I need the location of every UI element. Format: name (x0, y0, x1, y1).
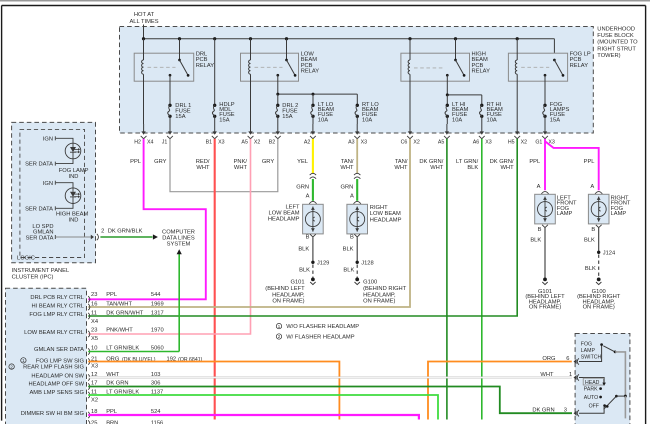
headlamp switch AUTO position (584, 395, 602, 401)
svg-text:A3: A3 (348, 139, 355, 145)
svg-text:FOG: FOG (581, 341, 592, 347)
bus junction at x=286.5 (285, 37, 288, 40)
ground G100 (behind right headlamp, on frame) (577, 278, 621, 311)
wire GRN to left low beam headlamp (296, 179, 313, 201)
headlamp LEFT LOW BEAM HEADLAMP (268, 204, 323, 234)
svg-text:X2: X2 (413, 139, 420, 145)
svg-text:RELAY: RELAY (570, 63, 589, 69)
svg-text:AMB LMP SENS SIG: AMB LMP SENS SIG (29, 390, 84, 396)
fuse DRL 2 FUSE 15A (276, 103, 299, 124)
wire label YEL (297, 159, 308, 165)
bus junction at x=250.5 (249, 37, 252, 40)
svg-text:BLK: BLK (298, 246, 309, 252)
svg-text:X2: X2 (254, 139, 261, 145)
IPC pin 2 connector (91, 234, 99, 240)
svg-text:SER DATA: SER DATA (25, 206, 53, 212)
wire BLK right low beam ground (343, 237, 358, 262)
svg-text:PPL: PPL (130, 159, 141, 165)
wire label DK GRN/ WHT (419, 159, 443, 171)
label: UNDERHOOD FUSE BLOCK (MOUNTED TO RIGHT STRUT TOWER) (597, 26, 638, 59)
svg-text:23: 23 (91, 292, 97, 298)
fog switch pin 1 connector (569, 372, 579, 381)
svg-text:HEAD: HEAD (585, 380, 600, 386)
svg-text:OFF: OFF (589, 404, 599, 410)
svg-text:WHT: WHT (394, 165, 408, 171)
svg-text:RELAY: RELAY (301, 69, 320, 75)
svg-text:FUSE BLOCK: FUSE BLOCK (597, 33, 634, 39)
fuse LT LO BEAM FUSE 10A (311, 102, 335, 124)
svg-text:1969: 1969 (151, 302, 164, 308)
svg-text:GRY: GRY (262, 159, 275, 165)
wire label GRY (154, 159, 167, 165)
pin C6/X2 of underhood fuse block (401, 124, 420, 145)
svg-text:W/ FLASHER HEADLAMP: W/ FLASHER HEADLAMP (286, 335, 355, 341)
svg-text:WHT: WHT (540, 372, 554, 378)
splice J128 (356, 261, 374, 267)
headlamp switch OFF position and arm (589, 395, 627, 419)
svg-text:LAMP: LAMP (581, 348, 596, 354)
wire BLK right fog to splice (584, 228, 599, 253)
svg-text:1: 1 (569, 372, 572, 378)
svg-text:23: 23 (91, 327, 97, 333)
pin A5 of underhood fuse block (438, 124, 450, 145)
svg-text:RIGHT STRUT: RIGHT STRUT (597, 46, 636, 52)
wire TAN/WHT (RT LO fuse to right low beam) (356, 139, 358, 174)
splice J129 (311, 261, 329, 267)
svg-text:GRY: GRY (154, 159, 167, 165)
pin J1 of underhood fuse block (162, 124, 173, 145)
svg-text:BLK: BLK (467, 165, 478, 171)
svg-text:ON FRAME): ON FRAME) (272, 299, 304, 305)
svg-text:BRN: BRN (106, 420, 118, 424)
svg-text:J128: J128 (361, 261, 373, 267)
svg-text:2: 2 (101, 229, 104, 235)
wire: high-beam feed branch (446, 93, 482, 105)
lamp socket connector B (right front fog) (591, 225, 601, 233)
wire link pin 3 to OFF contact (579, 407, 604, 413)
LED indicator HIGH BEAM IND (U2) (25, 181, 88, 224)
svg-text:DIMMER SW HI BM SIG: DIMMER SW HI BM SIG (21, 411, 85, 417)
svg-text:FOG LMP RLY CTRL: FOG LMP RLY CTRL (29, 312, 84, 318)
inline connector (YEL to GRN) (310, 173, 316, 178)
svg-text:RELAY: RELAY (196, 63, 215, 69)
svg-text:15A: 15A (219, 117, 229, 123)
svg-text:LT GRN/: LT GRN/ (456, 159, 479, 165)
svg-text:DK GRN/WHT: DK GRN/WHT (106, 310, 144, 316)
BCM pin 23 wire PNK/WHT 1970, label LOW BEAM RLY CTRL (24, 327, 164, 342)
svg-text:RELAY: RELAY (472, 69, 491, 75)
svg-text:5060: 5060 (151, 345, 164, 351)
lamp socket connector A (right low beam) (354, 201, 361, 203)
svg-text:IND: IND (69, 174, 79, 180)
svg-text:TAN/: TAN/ (395, 159, 408, 165)
lamp socket connector A (left front fog) (541, 192, 548, 194)
wire BLK left low beam ground (298, 237, 313, 262)
svg-text:G100: G100 (363, 280, 377, 286)
wire DK GRN 306 (headlamp off switch) (88, 387, 572, 414)
svg-text:ON FRAME): ON FRAME) (363, 299, 395, 305)
wire DK GRN/WHT 1317 (fog relay coil to BCM) (88, 139, 517, 316)
svg-text:A: A (537, 184, 541, 190)
svg-text:ON FRAME): ON FRAME) (583, 305, 615, 311)
wire BLK left fog ground (530, 228, 545, 278)
svg-text:LOGIC: LOGIC (17, 256, 35, 262)
svg-text:SER DATA: SER DATA (25, 162, 53, 168)
svg-text:HEADLAMP OFF SW: HEADLAMP OFF SW (29, 382, 85, 388)
svg-text:10A: 10A (318, 117, 328, 123)
splice J124 (597, 251, 616, 257)
svg-text:J124: J124 (603, 251, 616, 257)
svg-text:BLK: BLK (343, 246, 354, 252)
svg-text:HIGH BEAM: HIGH BEAM (56, 211, 88, 217)
svg-text:PNK/: PNK/ (234, 159, 248, 165)
wire BLK (below splice, dashed) (299, 265, 313, 278)
wire YEL (LT LO fuse to left low beam) (312, 139, 314, 174)
svg-text:YEL: YEL (297, 159, 308, 165)
svg-text:A: A (350, 194, 354, 200)
bus junction at x=455.5 (454, 37, 457, 40)
svg-text:544: 544 (151, 292, 161, 298)
svg-text:J1: J1 (162, 139, 168, 145)
svg-text:1970: 1970 (151, 327, 164, 333)
fog switch pin 6 connector (566, 356, 579, 365)
svg-text:WHT: WHT (501, 165, 515, 171)
svg-text:ORG: ORG (542, 356, 556, 362)
svg-text:WHT: WHT (340, 165, 354, 171)
BCM pin 25 wire BRN 1156 (clipped at page edge) (88, 420, 163, 424)
svg-text:BLK: BLK (585, 266, 596, 272)
BCM pin 11 wire DK GRN/WHT 1317, label FOG LMP RLY CTRL (29, 310, 163, 325)
svg-text:BLK: BLK (584, 238, 595, 244)
svg-text:HOT AT: HOT AT (134, 12, 155, 18)
svg-text:ON FRAME): ON FRAME) (529, 305, 561, 311)
BCM pin 12 wire WHT 103, label HEADLAMP ON SW (31, 372, 160, 381)
svg-text:X2: X2 (91, 397, 98, 403)
svg-text:J129: J129 (317, 261, 329, 267)
svg-text:A5: A5 (241, 139, 248, 145)
ground G101 (behind left headlamp) (265, 278, 315, 305)
svg-text:(BEHIND LEFT: (BEHIND LEFT (265, 286, 305, 292)
svg-text:A6: A6 (473, 139, 480, 145)
body control module (dashed box) (6, 288, 87, 424)
BCM pin 21 wire ORG 192, labels FOG LMP SW SIG / REAR LMP FLASH SIG (9, 356, 203, 370)
svg-text:INSTRUMENT PANEL: INSTRUMENT PANEL (12, 268, 70, 274)
BCM pin 10 wire LT GRN/BLK 5060, label GMLAN SER DATA (34, 345, 179, 354)
svg-text:BLK: BLK (530, 238, 541, 244)
relay K2 LOW BEAM PCB RELAY (241, 39, 320, 124)
BCM pin 23 wire PPL 544, label DRL PCB RLY CTRL (30, 292, 161, 303)
svg-text:UNDERHOOD: UNDERHOOD (597, 26, 635, 32)
lamp socket connector A (right front fog) (595, 192, 602, 194)
wire PPL 524 (dimmer switch high beam) (88, 415, 419, 420)
svg-text:A5: A5 (438, 139, 445, 145)
svg-text:10A: 10A (362, 117, 372, 123)
ground G100 (behind right headlamp) (355, 278, 407, 305)
svg-text:GRN: GRN (341, 184, 354, 190)
wire GRY (DRL1 fuse J1 to B2 link) (170, 139, 278, 192)
svg-text:H5: H5 (508, 139, 515, 145)
pin B1/X3 of underhood fuse block (206, 124, 225, 145)
wire label LT GRN/ BLK (456, 159, 479, 171)
svg-text:DK GRN: DK GRN (532, 408, 554, 414)
svg-text:HI BEAM RLY CTRL: HI BEAM RLY CTRL (31, 303, 84, 309)
svg-text:HEADLAMP,: HEADLAMP, (272, 292, 305, 298)
svg-text:REAR LMP FLASH SIG: REAR LMP FLASH SIG (23, 365, 84, 371)
svg-text:FOG LMP SW SIG: FOG LMP SW SIG (36, 359, 85, 365)
headlamp RIGHT LOW BEAM HEADLAMP (347, 204, 402, 234)
wire ORG 192 (fog lamp switch signal) (88, 362, 572, 420)
wire BLK (below splice, dashed) (585, 255, 599, 278)
wire PPL 544 (DRL relay coil to BCM pin 23) (88, 139, 206, 299)
svg-text:LOW BEAM RLY CTRL: LOW BEAM RLY CTRL (24, 330, 84, 336)
pin G1/X3 of underhood fuse block (535, 124, 555, 145)
BCM pin 16 wire TAN/WHT 1969, label HI BEAM RLY CTRL (31, 302, 163, 311)
note 1: W/O FLASHER HEADLAMP (276, 323, 359, 330)
wire label DK GRN/ WHT (490, 159, 514, 171)
fuse RT HI BEAM FUSE 10A (480, 102, 503, 124)
label FOG LAMP SWITCH (581, 341, 602, 360)
svg-text:DRL PCB RLY CTRL: DRL PCB RLY CTRL (30, 295, 84, 301)
svg-text:LAMP: LAMP (557, 211, 573, 217)
BCM pin 11 wire LT GRN/BLK 1137, label AMB LMP SENS SIG (29, 389, 163, 403)
svg-text:AUTO: AUTO (584, 395, 598, 401)
power feed HOT AT ALL TIMES (129, 12, 158, 39)
svg-text:B: B (538, 227, 542, 233)
wire label TAN/ WHT (394, 159, 408, 171)
svg-text:PPL: PPL (584, 159, 595, 165)
svg-text:HEADLAMP ON SW: HEADLAMP ON SW (31, 373, 84, 379)
svg-text:HEADLAMP: HEADLAMP (268, 217, 300, 223)
BCM pin 17 wire DK GRN 306, label HEADLAMP OFF SW (29, 381, 161, 390)
svg-text:WHT: WHT (196, 165, 210, 171)
svg-text:SYSTEM: SYSTEM (167, 241, 191, 247)
fog lamp RIGHT FRONT FOG LAMP (588, 194, 630, 224)
wire GRN to right low beam headlamp (341, 179, 358, 201)
svg-text:10A: 10A (452, 117, 462, 123)
svg-text:LAMP: LAMP (611, 211, 627, 217)
svg-text:H2: H2 (134, 139, 141, 145)
bus junction at x=410 (408, 37, 411, 40)
svg-text:C6: C6 (401, 139, 408, 145)
ground G101 (behind left headlamp, on frame) (525, 278, 565, 311)
bus junction at x=143.5 (142, 37, 145, 40)
svg-text:WHT: WHT (234, 165, 248, 171)
svg-text:X3: X3 (361, 139, 368, 145)
svg-text:HEADLAMP: HEADLAMP (370, 218, 402, 224)
svg-text:PPL: PPL (106, 292, 117, 298)
wire DK GRN/BLK pin 2 to data lines (100, 229, 157, 240)
svg-text:PARK: PARK (584, 387, 598, 393)
label INSTRUMENT PANEL CLUSTER (IPC) (12, 268, 70, 280)
bus junction at x=214.7 (213, 37, 216, 40)
svg-text:SWITCH: SWITCH (581, 354, 602, 360)
wire DK GRN/WHT (LT HI fuse, runs off page) (446, 139, 448, 420)
svg-text:B: B (591, 227, 595, 233)
svg-text:DK GRN/BLK: DK GRN/BLK (108, 229, 143, 235)
relay K1 DRL PCB RELAY (134, 39, 214, 124)
svg-text:FOG LAMP: FOG LAMP (59, 168, 89, 174)
pin B2 of underhood fuse block (269, 124, 281, 145)
fuse DRL 1 FUSE 15A (168, 103, 192, 124)
svg-text:TOWER): TOWER) (597, 53, 620, 59)
wire LT GRN/BLK (RT HI fuse, runs off page) (481, 139, 483, 420)
IPC LOGIC inner dashed box (17, 129, 85, 261)
svg-text:1317: 1317 (151, 310, 164, 316)
svg-text:B2: B2 (269, 139, 276, 145)
svg-text:15A: 15A (550, 117, 560, 123)
svg-text:X4: X4 (91, 319, 99, 325)
svg-text:BLK: BLK (299, 268, 310, 274)
wire WHT 103 (headlamp on switch) (88, 377, 572, 379)
relay K3 HIGH BEAM PCB RELAY (401, 39, 490, 124)
svg-text:(MOUNTED TO: (MOUNTED TO (597, 40, 638, 46)
svg-text:X3: X3 (218, 139, 225, 145)
lamp socket connector B (right low beam) (350, 234, 360, 240)
svg-text:1156: 1156 (151, 420, 163, 424)
fuse RT LO BEAM FUSE 10A (355, 102, 379, 124)
wire label PPL (130, 159, 141, 165)
svg-text:IGN: IGN (43, 136, 53, 142)
BCM pin 18 wire PPL 524, label DIMMER SW HI BM SIG (21, 409, 162, 418)
wire BLK (below splice, dashed) (343, 265, 357, 278)
svg-text:HEADLAMP,: HEADLAMP, (363, 292, 396, 298)
wire TAN/WHT 1969 (high beam relay coil to BCM) (88, 139, 410, 307)
svg-text:WHT: WHT (430, 165, 444, 171)
wire PPL branch to right front fog lamp (545, 141, 599, 190)
wire PPL to left front fog lamp (537, 139, 545, 190)
svg-text:11: 11 (91, 310, 97, 316)
svg-text:IGN: IGN (43, 181, 53, 187)
bus junction at x=179.5 (178, 37, 181, 40)
pin A2 of underhood fuse block (304, 124, 316, 145)
pin A3/X3 of underhood fuse block (348, 124, 367, 145)
relay K4 FOG LP PCB RELAY (508, 39, 590, 124)
lamp socket connector A (left low beam) (309, 201, 316, 203)
svg-text:3: 3 (564, 408, 567, 414)
wire: low-beam feed branch (276, 93, 357, 106)
inline connector (TAN/WHT to GRN) (354, 173, 360, 178)
svg-text:TAN/WHT: TAN/WHT (106, 302, 132, 308)
lamp socket connector B (left low beam) (306, 234, 316, 240)
svg-text:6: 6 (566, 356, 569, 362)
svg-text:A: A (306, 194, 310, 200)
svg-text:15A: 15A (175, 114, 185, 120)
wire label RED/ WHT (196, 159, 210, 171)
svg-text:A: A (590, 184, 594, 190)
node COMPUTER DATA LINES SYSTEM (162, 230, 195, 248)
svg-text:W/O FLASHER HEADLAMP: W/O FLASHER HEADLAMP (286, 324, 359, 330)
svg-text:(BEHIND RIGHT: (BEHIND RIGHT (363, 286, 407, 292)
wire label GRY (262, 159, 275, 165)
svg-text:RED/: RED/ (196, 159, 210, 165)
bus junction at x=517.2 (516, 37, 519, 40)
svg-text:B: B (306, 234, 310, 240)
svg-text:IND: IND (69, 218, 79, 224)
svg-text:G1: G1 (535, 139, 542, 145)
fuse HDLP MDL FUSE 15A (212, 39, 234, 124)
pin H5/X2 of underhood fuse block (508, 124, 527, 145)
pin A6/X3 of underhood fuse block (473, 124, 492, 145)
svg-text:16: 16 (91, 302, 97, 308)
bus wire B+ (144, 39, 555, 60)
fog lamp LEFT FRONT FOG LAMP (535, 194, 577, 224)
fog switch contact and arm (579, 343, 625, 396)
fuse FOG LAMPS FUSE 15A (543, 102, 570, 124)
svg-text:DK GRN/: DK GRN/ (419, 159, 443, 165)
svg-text:X2: X2 (521, 139, 528, 145)
svg-text:BLK: BLK (343, 268, 354, 274)
svg-text:LT GRN/BLK: LT GRN/BLK (106, 345, 139, 351)
svg-text:LOW BEAM: LOW BEAM (370, 211, 401, 217)
note 2: W/ FLASHER HEADLAMP (276, 334, 354, 341)
lamp socket connector B (left front fog) (538, 225, 548, 233)
wire LT GRN/BLK 5060 riser to data lines system (177, 249, 182, 351)
svg-text:B1: B1 (206, 139, 213, 145)
fog switch pin 3 connector (564, 408, 579, 417)
svg-text:RIGHT: RIGHT (370, 205, 388, 211)
wire LT GRN/BLK 1137 (ambient lamp sensor) (88, 395, 438, 420)
underhood fuse block (dashed box) (120, 27, 594, 134)
pin H2/X4 of underhood fuse block (134, 124, 153, 145)
svg-text:X5: X5 (91, 336, 98, 342)
svg-text:ALL TIMES: ALL TIMES (129, 19, 158, 25)
IPC output LO SPD GMLAN SER DATA (26, 224, 94, 242)
headlamp switch PARK position (584, 387, 602, 393)
svg-text:GRN: GRN (296, 184, 309, 190)
svg-text:B: B (350, 234, 354, 240)
wire PNK/WHT 1970 (low beam relay coil to BCM) (88, 139, 250, 334)
headlamp switch HEAD position (579, 378, 606, 387)
svg-text:10: 10 (91, 345, 97, 351)
svg-text:A2: A2 (304, 139, 311, 145)
pin A5/X2 of underhood fuse block (241, 124, 260, 145)
svg-text:25: 25 (91, 420, 97, 424)
svg-text:X3: X3 (485, 139, 492, 145)
instrument panel cluster IPC (dashed box) (12, 122, 96, 262)
fuse LT HI BEAM FUSE 10A (445, 102, 468, 124)
svg-text:X3: X3 (91, 364, 98, 370)
svg-text:PNK/WHT: PNK/WHT (106, 327, 133, 333)
svg-text:G101: G101 (291, 280, 305, 286)
fog lamp switch (dashed box) (575, 334, 630, 424)
svg-text:SER DATA: SER DATA (26, 236, 54, 242)
wire label PNK/ WHT (234, 159, 248, 171)
svg-text:LEFT: LEFT (285, 204, 300, 210)
svg-text:X4: X4 (147, 139, 154, 145)
svg-text:CLUSTER (IPC): CLUSTER (IPC) (12, 274, 54, 280)
LED indicator FOG LAMP IND (U1) (25, 136, 89, 180)
svg-text:GMLAN SER DATA: GMLAN SER DATA (34, 347, 84, 353)
svg-text:10A: 10A (487, 117, 497, 123)
svg-text:DK GRN/: DK GRN/ (490, 159, 514, 165)
svg-text:LOW BEAM: LOW BEAM (269, 211, 300, 217)
svg-text:15A: 15A (282, 114, 292, 120)
wire label PPL (529, 159, 540, 165)
wire RED/WHT (HDLP MDL fuse B1/X3, runs off page) (214, 139, 216, 420)
svg-text:TAN/: TAN/ (341, 159, 354, 165)
wire label TAN/ WHT (340, 159, 354, 171)
wire label PPL (584, 159, 595, 165)
svg-text:PPL: PPL (529, 159, 540, 165)
